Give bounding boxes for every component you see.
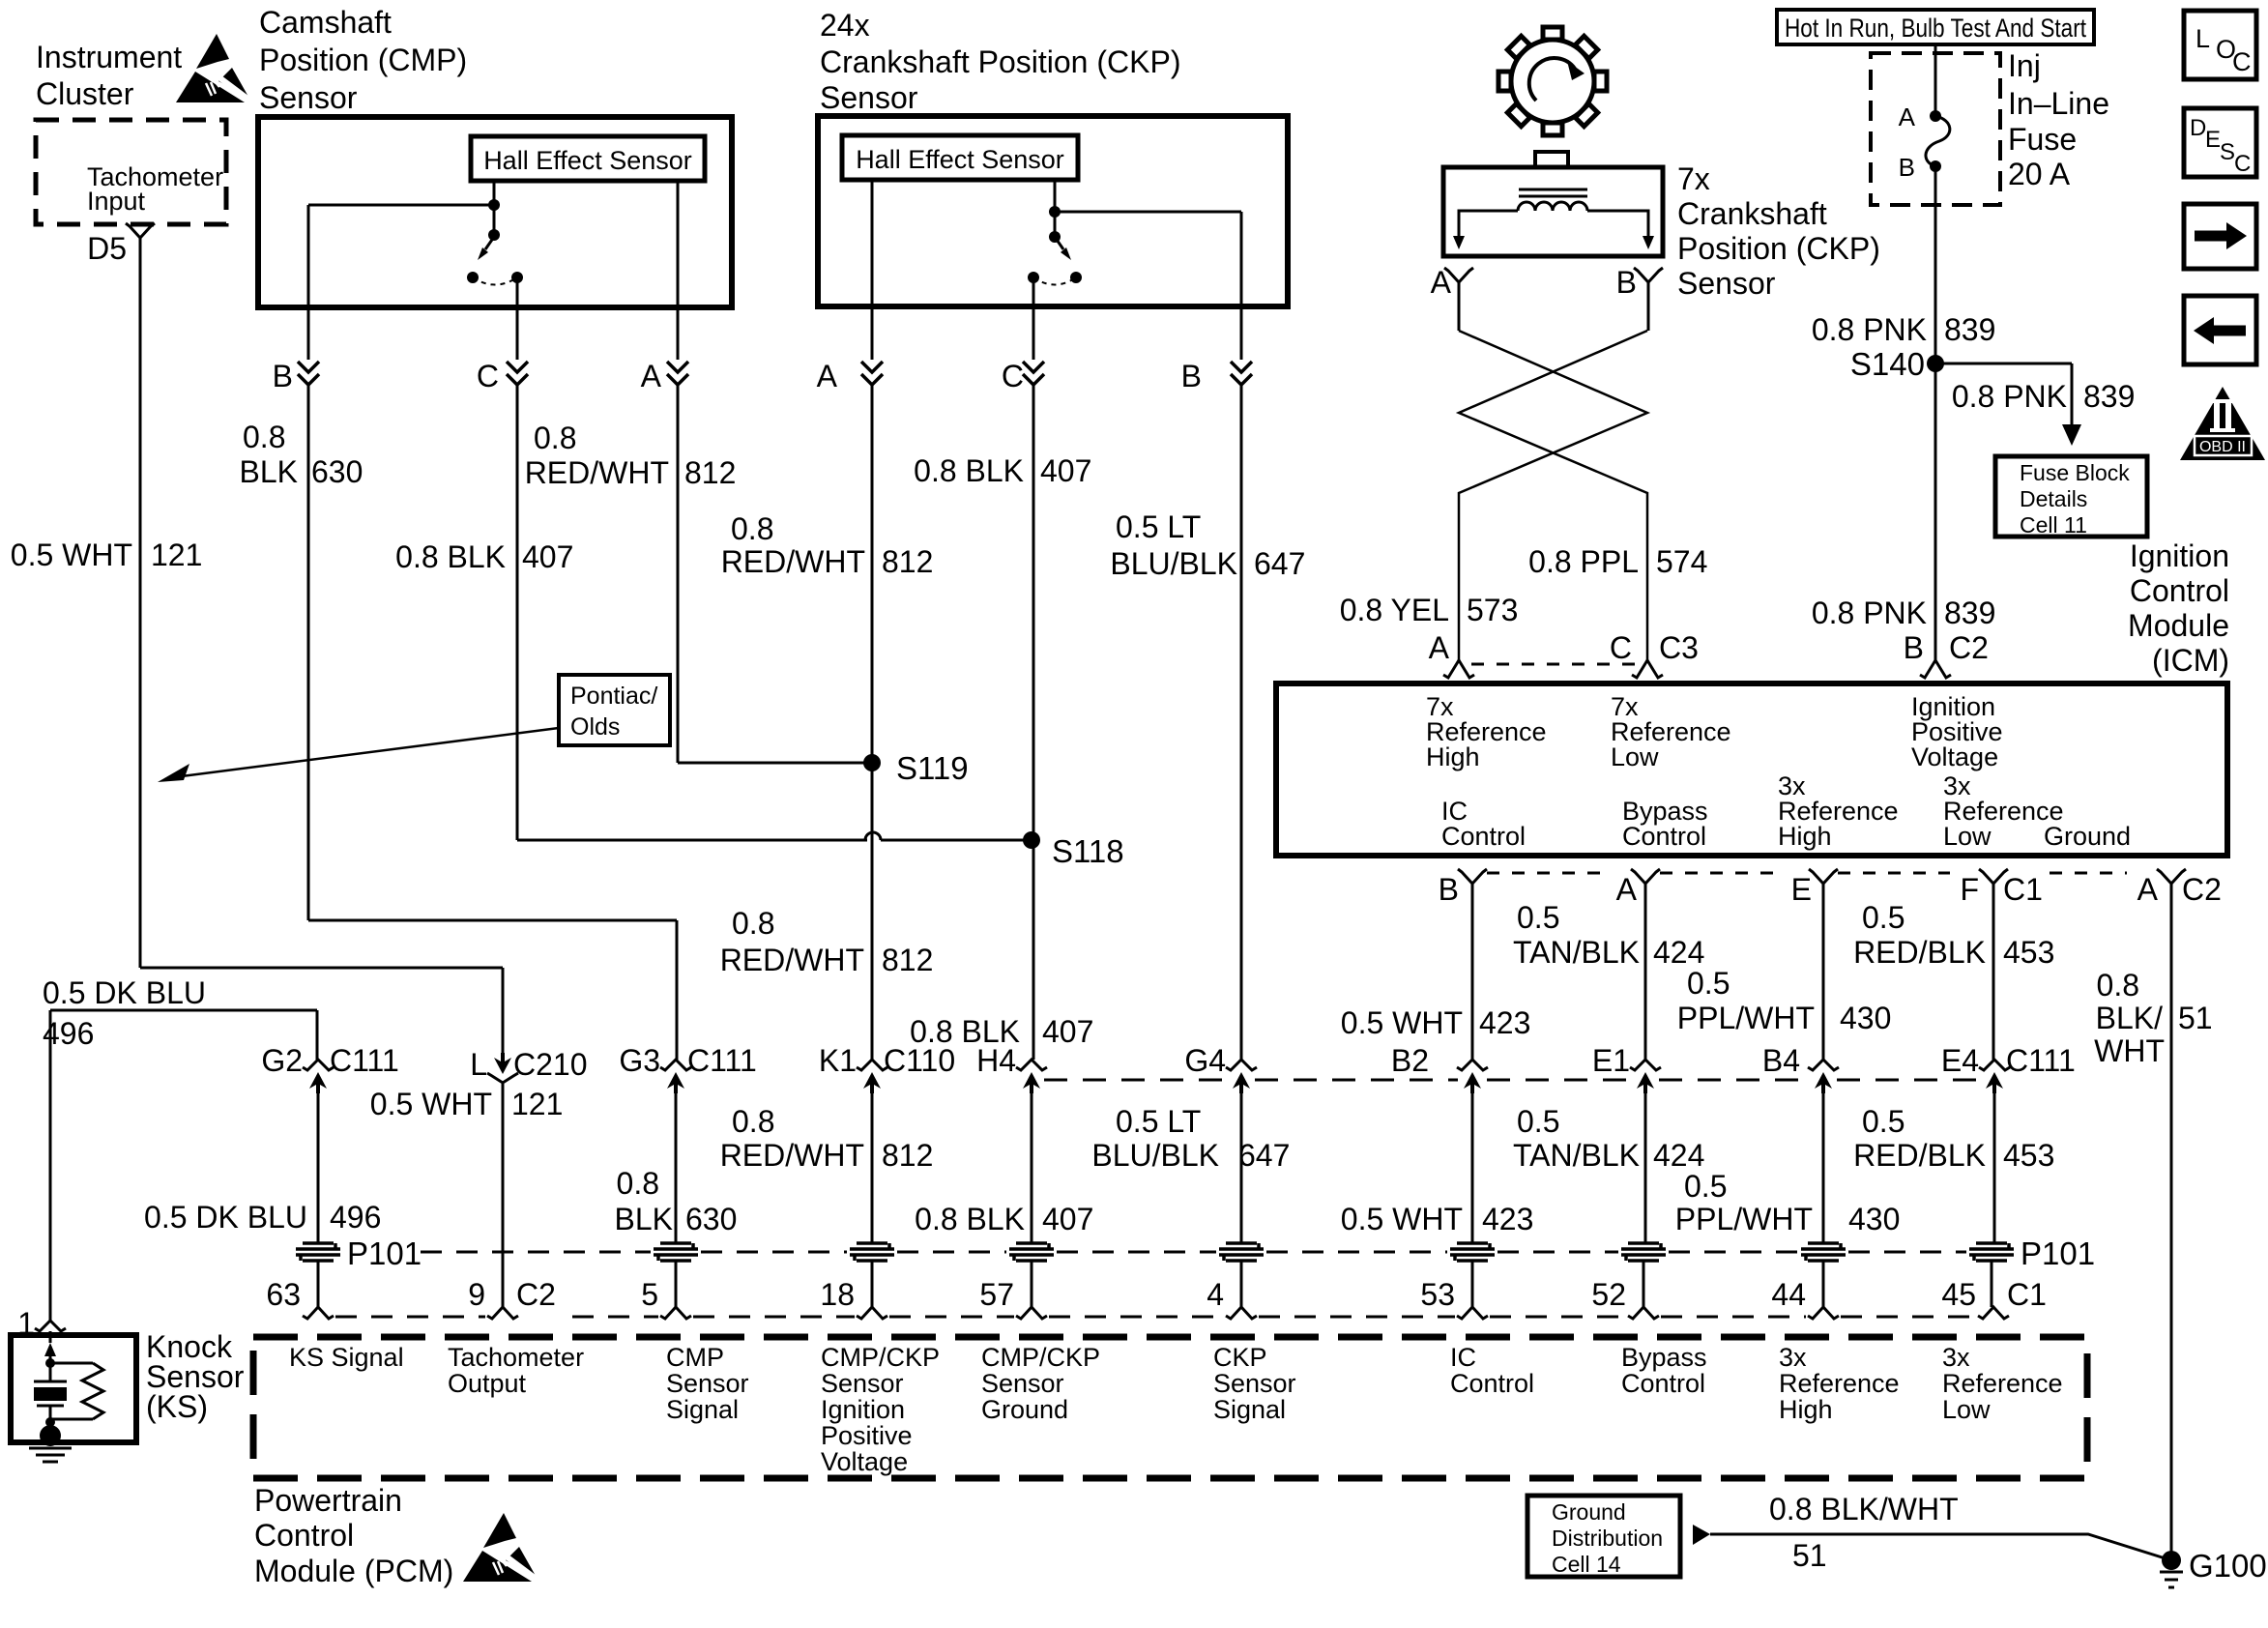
- svg-text:RED/BLK: RED/BLK: [1853, 1138, 1986, 1173]
- svg-text:E: E: [2205, 127, 2221, 153]
- svg-text:0.8 BLK/WHT: 0.8 BLK/WHT: [1769, 1492, 1959, 1526]
- svg-text:453: 453: [2003, 1138, 2054, 1173]
- svg-text:Details: Details: [2020, 486, 2087, 511]
- svg-text:C111: C111: [330, 1043, 399, 1078]
- svg-text:Camshaft: Camshaft: [259, 5, 392, 40]
- svg-text:Inj: Inj: [2008, 48, 2041, 83]
- svg-text:Crankshaft Position (CKP): Crankshaft Position (CKP): [820, 44, 1180, 79]
- svg-text:423: 423: [1482, 1202, 1533, 1236]
- svg-text:0.8 BLK: 0.8 BLK: [914, 453, 1024, 488]
- svg-text:BLK: BLK: [240, 454, 298, 489]
- svg-text:3x: 3x: [1942, 1343, 1970, 1372]
- svg-text:A: A: [1899, 102, 1916, 131]
- svg-text:G2: G2: [261, 1043, 303, 1078]
- svg-text:Ignition: Ignition: [821, 1395, 905, 1424]
- svg-text:RED/WHT: RED/WHT: [721, 544, 865, 579]
- svg-text:0.8: 0.8: [617, 1166, 659, 1201]
- svg-text:G3: G3: [619, 1043, 660, 1078]
- svg-text:CKP: CKP: [1213, 1343, 1267, 1372]
- svg-text:Sensor: Sensor: [821, 1369, 904, 1398]
- svg-text:Reference: Reference: [1942, 1369, 2063, 1398]
- svg-text:0.5: 0.5: [1687, 966, 1730, 1001]
- svg-text:424: 424: [1653, 1138, 1704, 1173]
- svg-text:CMP/CKP: CMP/CKP: [981, 1343, 1100, 1372]
- svg-text:407: 407: [522, 539, 573, 574]
- svg-text:E1: E1: [1592, 1043, 1630, 1078]
- svg-text:Crankshaft: Crankshaft: [1677, 196, 1827, 231]
- svg-text:Olds: Olds: [570, 713, 620, 741]
- svg-text:0.8 PNK: 0.8 PNK: [1812, 312, 1927, 347]
- svg-text:C210: C210: [513, 1047, 588, 1082]
- svg-text:CMP: CMP: [666, 1343, 724, 1372]
- svg-text:630: 630: [311, 454, 363, 489]
- svg-text:S140: S140: [1850, 346, 1925, 382]
- svg-text:B: B: [1899, 153, 1915, 182]
- svg-text:0.8 YEL: 0.8 YEL: [1340, 593, 1449, 627]
- svg-text:45: 45: [1941, 1277, 1976, 1312]
- svg-text:121: 121: [511, 1087, 563, 1121]
- svg-text:0.5: 0.5: [1862, 900, 1905, 935]
- svg-text:5: 5: [641, 1277, 658, 1312]
- svg-text:S118: S118: [1052, 833, 1124, 869]
- svg-text:Control: Control: [254, 1518, 354, 1553]
- svg-text:0.8 BLK: 0.8 BLK: [915, 1202, 1025, 1236]
- svg-text:Ground: Ground: [981, 1395, 1068, 1424]
- svg-text:RED/WHT: RED/WHT: [720, 943, 864, 977]
- svg-text:0.8 BLK: 0.8 BLK: [395, 539, 506, 574]
- svg-text:0.5 WHT: 0.5 WHT: [1341, 1202, 1463, 1236]
- svg-text:L: L: [2195, 24, 2210, 53]
- svg-text:423: 423: [1479, 1005, 1530, 1040]
- svg-text:WHT: WHT: [2094, 1033, 2165, 1068]
- svg-text:A: A: [817, 359, 838, 393]
- svg-text:839: 839: [1944, 312, 1995, 347]
- svg-text:Position (CKP): Position (CKP): [1677, 231, 1880, 266]
- svg-text:C: C: [2232, 47, 2252, 76]
- svg-text:BLK: BLK: [615, 1202, 673, 1236]
- svg-text:Ground: Ground: [1552, 1499, 1626, 1525]
- svg-text:D5: D5: [87, 231, 127, 266]
- svg-text:Output: Output: [448, 1369, 527, 1398]
- svg-text:Cell 14: Cell 14: [1552, 1552, 1621, 1577]
- svg-text:G4: G4: [1184, 1043, 1226, 1078]
- svg-text:A: A: [1616, 872, 1638, 907]
- svg-text:CMP/CKP: CMP/CKP: [821, 1343, 940, 1372]
- svg-text:0.8 PNK: 0.8 PNK: [1952, 379, 2067, 414]
- svg-text:0.8: 0.8: [732, 906, 774, 941]
- svg-text:C2: C2: [516, 1277, 556, 1312]
- svg-text:High: High: [1426, 742, 1480, 771]
- svg-text:Hall Effect Sensor: Hall Effect Sensor: [856, 145, 1064, 174]
- svg-text:TAN/BLK: TAN/BLK: [1513, 935, 1640, 970]
- svg-text:Low: Low: [1942, 1395, 1991, 1424]
- svg-text:496: 496: [330, 1200, 381, 1235]
- svg-text:B2: B2: [1391, 1043, 1429, 1078]
- svg-text:E: E: [1791, 872, 1812, 907]
- svg-text:812: 812: [684, 455, 736, 490]
- svg-text:Signal: Signal: [1213, 1395, 1286, 1424]
- svg-text:Sensor: Sensor: [820, 80, 918, 115]
- svg-text:812: 812: [882, 943, 933, 977]
- svg-text:0.5 LT: 0.5 LT: [1116, 509, 1201, 544]
- svg-text:Fuse Block: Fuse Block: [2020, 460, 2130, 485]
- svg-text:C: C: [1002, 359, 1024, 393]
- svg-text:KS Signal: KS Signal: [289, 1343, 404, 1372]
- svg-text:Ground: Ground: [2044, 822, 2131, 851]
- svg-text:C: C: [477, 359, 499, 393]
- svg-text:0.8: 0.8: [731, 511, 773, 546]
- svg-text:H4: H4: [976, 1043, 1016, 1078]
- svg-text:407: 407: [1040, 453, 1091, 488]
- svg-text:453: 453: [2003, 935, 2054, 970]
- svg-text:647: 647: [1238, 1138, 1290, 1173]
- svg-text:9: 9: [468, 1277, 485, 1312]
- svg-text:B: B: [1181, 359, 1202, 393]
- svg-text:53: 53: [1420, 1277, 1455, 1312]
- svg-text:0.5 WHT: 0.5 WHT: [11, 538, 132, 572]
- svg-text:C: C: [2234, 151, 2251, 177]
- svg-text:121: 121: [151, 538, 202, 572]
- svg-text:S: S: [2220, 139, 2235, 165]
- svg-text:Sensor: Sensor: [666, 1369, 749, 1398]
- svg-text:Cluster: Cluster: [36, 76, 134, 111]
- svg-text:Voltage: Voltage: [1911, 742, 1998, 771]
- svg-text:0.8: 0.8: [2097, 968, 2139, 1003]
- svg-text:C1: C1: [2007, 1277, 2047, 1312]
- svg-text:Control: Control: [1621, 1369, 1705, 1398]
- svg-text:RED/BLK: RED/BLK: [1853, 935, 1986, 970]
- svg-text:3x: 3x: [1779, 1343, 1807, 1372]
- svg-text:Hall Effect Sensor: Hall Effect Sensor: [483, 146, 692, 175]
- svg-text:407: 407: [1042, 1202, 1093, 1236]
- svg-text:0.5: 0.5: [1862, 1104, 1905, 1139]
- svg-text:High: High: [1779, 1395, 1833, 1424]
- svg-text:812: 812: [882, 1138, 933, 1173]
- svg-text:0.5 WHT: 0.5 WHT: [370, 1087, 492, 1121]
- svg-text:C3: C3: [1659, 630, 1699, 665]
- svg-text:RED/WHT: RED/WHT: [720, 1138, 864, 1173]
- svg-text:A: A: [2137, 872, 2159, 907]
- svg-text:Reference: Reference: [1779, 1369, 1900, 1398]
- svg-text:52: 52: [1591, 1277, 1626, 1312]
- svg-text:D: D: [2190, 115, 2206, 141]
- svg-text:Distribution: Distribution: [1552, 1526, 1663, 1551]
- svg-text:63: 63: [266, 1277, 301, 1312]
- svg-text:0.8: 0.8: [243, 420, 285, 454]
- svg-text:0.5 LT: 0.5 LT: [1116, 1104, 1201, 1139]
- svg-text:L: L: [470, 1047, 487, 1082]
- svg-text:P101: P101: [2021, 1236, 2095, 1271]
- svg-text:Module: Module: [2128, 608, 2229, 643]
- svg-text:574: 574: [1656, 544, 1707, 579]
- svg-text:OBD II: OBD II: [2199, 439, 2246, 455]
- svg-text:430: 430: [1840, 1001, 1891, 1035]
- svg-text:BLK/: BLK/: [2096, 1001, 2163, 1035]
- svg-text:B: B: [273, 359, 293, 393]
- svg-text:630: 630: [685, 1202, 737, 1236]
- svg-text:0.8 PPL: 0.8 PPL: [1528, 544, 1639, 579]
- svg-text:Low: Low: [1943, 822, 1992, 851]
- svg-text:57: 57: [979, 1277, 1014, 1312]
- svg-text:S119: S119: [896, 750, 969, 786]
- svg-text:839: 839: [2083, 379, 2135, 414]
- svg-text:PPL/WHT: PPL/WHT: [1675, 1202, 1813, 1236]
- svg-text:4: 4: [1207, 1277, 1224, 1312]
- svg-text:A: A: [1429, 630, 1450, 665]
- svg-text:Control: Control: [2130, 573, 2229, 608]
- svg-text:Pontiac/: Pontiac/: [570, 683, 657, 710]
- svg-text:Control: Control: [1622, 822, 1706, 851]
- svg-text:TAN/BLK: TAN/BLK: [1513, 1138, 1640, 1173]
- svg-text:Voltage: Voltage: [821, 1447, 908, 1476]
- svg-text:51: 51: [1792, 1538, 1827, 1573]
- svg-text:0.8 PNK: 0.8 PNK: [1812, 596, 1927, 630]
- svg-text:Sensor: Sensor: [259, 80, 358, 115]
- svg-text:C: C: [1610, 630, 1632, 665]
- svg-text:RED/WHT: RED/WHT: [525, 455, 669, 490]
- svg-text:20 A: 20 A: [2008, 157, 2071, 191]
- svg-text:C111: C111: [2006, 1043, 2076, 1078]
- svg-text:BLU/BLK: BLU/BLK: [1110, 546, 1237, 581]
- svg-text:B4: B4: [1762, 1043, 1800, 1078]
- svg-text:430: 430: [1848, 1202, 1900, 1236]
- svg-text:Control: Control: [1450, 1369, 1534, 1398]
- svg-text:Fuse: Fuse: [2008, 122, 2077, 157]
- svg-text:Bypass: Bypass: [1621, 1343, 1707, 1372]
- svg-text:0.5 DK BLU: 0.5 DK BLU: [43, 975, 206, 1010]
- svg-text:0.8: 0.8: [732, 1104, 774, 1139]
- svg-text:B: B: [1904, 630, 1924, 665]
- svg-text:E4: E4: [1941, 1043, 1979, 1078]
- svg-text:Instrument: Instrument: [36, 40, 182, 74]
- svg-text:C111: C111: [687, 1043, 757, 1078]
- svg-text:0.5: 0.5: [1684, 1169, 1727, 1204]
- svg-text:496: 496: [43, 1016, 94, 1051]
- svg-text:839: 839: [1944, 596, 1995, 630]
- svg-text:In–Line: In–Line: [2008, 86, 2109, 121]
- svg-text:Position (CMP): Position (CMP): [259, 43, 467, 77]
- svg-text:C1: C1: [2003, 872, 2043, 907]
- svg-text:(KS): (KS): [146, 1389, 208, 1424]
- svg-text:0.5 DK BLU: 0.5 DK BLU: [144, 1200, 307, 1235]
- svg-text:0.5: 0.5: [1517, 1104, 1559, 1139]
- svg-text:812: 812: [882, 544, 933, 579]
- svg-text:B: B: [1439, 872, 1459, 907]
- svg-text:Powertrain: Powertrain: [254, 1483, 402, 1518]
- svg-text:P101: P101: [347, 1236, 422, 1271]
- svg-text:647: 647: [1254, 546, 1305, 581]
- svg-text:Control: Control: [1441, 822, 1526, 851]
- svg-text:Ignition: Ignition: [2130, 538, 2229, 573]
- svg-text:High: High: [1778, 822, 1832, 851]
- svg-text:(ICM): (ICM): [2152, 643, 2229, 678]
- svg-text:Sensor: Sensor: [1213, 1369, 1296, 1398]
- svg-text:Hot In Run, Bulb Test And Star: Hot In Run, Bulb Test And Start: [1785, 14, 2086, 43]
- svg-text:407: 407: [1042, 1014, 1093, 1049]
- svg-text:Low: Low: [1611, 742, 1659, 771]
- svg-text:Cell 11: Cell 11: [2020, 512, 2087, 538]
- svg-text:44: 44: [1771, 1277, 1806, 1312]
- svg-text:Input: Input: [87, 187, 146, 216]
- svg-text:0.5: 0.5: [1517, 900, 1559, 935]
- svg-text:0.5 WHT: 0.5 WHT: [1341, 1005, 1463, 1040]
- svg-text:573: 573: [1467, 593, 1518, 627]
- svg-text:PPL/WHT: PPL/WHT: [1677, 1001, 1815, 1035]
- svg-text:IC: IC: [1450, 1343, 1476, 1372]
- svg-text:424: 424: [1653, 935, 1704, 970]
- svg-text:G100: G100: [2189, 1548, 2267, 1584]
- svg-text:Positive: Positive: [821, 1421, 913, 1450]
- svg-text:Tachometer: Tachometer: [448, 1343, 584, 1372]
- svg-text:F: F: [1960, 872, 1979, 907]
- svg-text:C110: C110: [884, 1043, 955, 1078]
- svg-text:BLU/BLK: BLU/BLK: [1091, 1138, 1219, 1173]
- svg-text:Sensor: Sensor: [1677, 266, 1776, 301]
- svg-text:18: 18: [820, 1277, 855, 1312]
- svg-text:Signal: Signal: [666, 1395, 739, 1424]
- svg-text:Sensor: Sensor: [981, 1369, 1064, 1398]
- svg-text:7x: 7x: [1677, 161, 1710, 196]
- svg-text:51: 51: [2178, 1001, 2213, 1035]
- svg-text:Module (PCM): Module (PCM): [254, 1554, 453, 1588]
- svg-text:C2: C2: [2182, 872, 2222, 907]
- svg-text:24x: 24x: [820, 8, 870, 43]
- svg-text:C2: C2: [1949, 630, 1989, 665]
- svg-text:K1: K1: [819, 1043, 857, 1078]
- svg-text:A: A: [641, 359, 662, 393]
- svg-text:0.8: 0.8: [534, 421, 576, 455]
- svg-text:B: B: [1616, 265, 1637, 300]
